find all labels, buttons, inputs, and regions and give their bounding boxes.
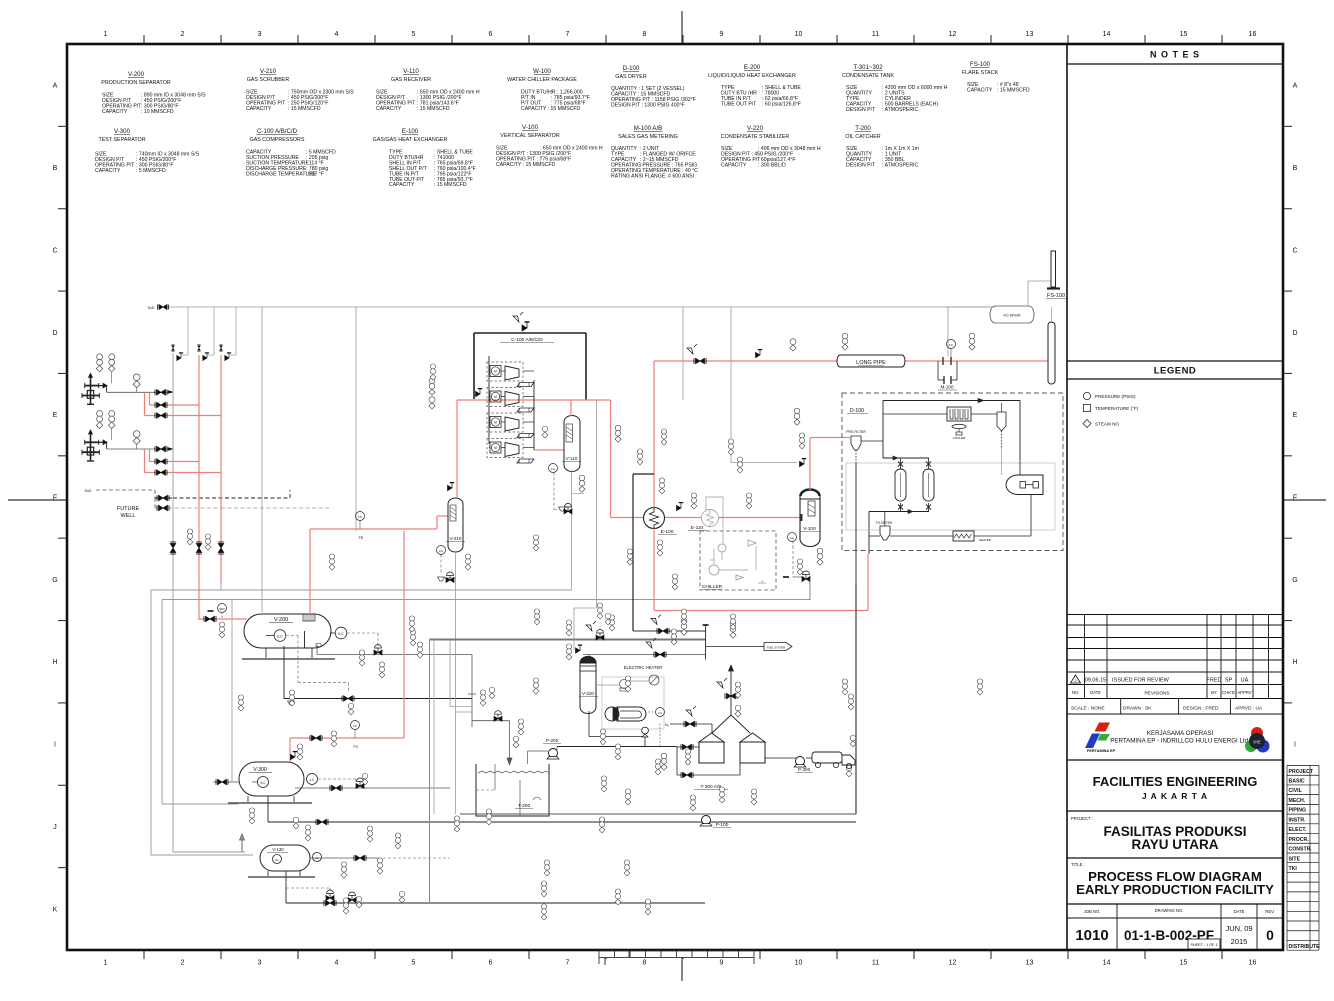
svg-text:N O T E S: N O T E S xyxy=(1150,50,1200,60)
svg-text:M: M xyxy=(494,446,497,450)
svg-text:EARLY PRODUCTION FACILITY: EARLY PRODUCTION FACILITY xyxy=(1076,882,1274,897)
svg-text:P-100: P-100 xyxy=(716,822,729,828)
svg-text:N₂: N₂ xyxy=(665,723,670,727)
svg-text:OIL CATCHER: OIL CATCHER xyxy=(845,134,880,140)
svg-text:8: 8 xyxy=(643,31,647,38)
svg-text:V-110: V-110 xyxy=(403,68,419,75)
svg-text:P-200: P-200 xyxy=(546,738,559,743)
svg-text:H: H xyxy=(1292,659,1297,666)
svg-text:: 300 BBL/D: : 300 BBL/D xyxy=(758,162,786,168)
svg-text:T-200: T-200 xyxy=(518,803,531,809)
svg-text:SP: SP xyxy=(1225,678,1233,684)
svg-text:FUEL SYSTEM: FUEL SYSTEM xyxy=(767,646,785,650)
svg-text:DISTRIBUTE: DISTRIBUTE xyxy=(1289,944,1321,950)
svg-text:PRE-FILTER: PRE-FILTER xyxy=(846,430,866,434)
svg-text:9: 9 xyxy=(720,31,724,38)
svg-text::: : xyxy=(551,106,552,112)
svg-text:A: A xyxy=(53,83,58,90)
svg-text:LIQUID/LIQUID HEAT EXCHANGER: LIQUID/LIQUID HEAT EXCHANGER xyxy=(708,73,796,79)
svg-text:DxD: DxD xyxy=(85,489,92,493)
svg-text:VERTICAL SEPARATOR: VERTICAL SEPARATOR xyxy=(500,133,560,139)
svg-text:C: C xyxy=(52,247,57,254)
svg-text:E: E xyxy=(53,412,58,419)
svg-text:HEATER: HEATER xyxy=(979,538,992,542)
svg-text:8: 8 xyxy=(643,960,647,967)
svg-text:LG: LG xyxy=(790,536,795,540)
svg-text:PROJECT: PROJECT xyxy=(1289,769,1314,775)
svg-text:H: H xyxy=(52,659,57,666)
svg-text:9: 9 xyxy=(720,960,724,967)
svg-text:M-100 A/B: M-100 A/B xyxy=(634,125,662,132)
svg-text:: 15 MMSCFD: : 15 MMSCFD xyxy=(417,106,450,112)
svg-text:LG: LG xyxy=(439,549,444,553)
svg-text:V-210: V-210 xyxy=(260,68,277,75)
svg-text:ILC: ILC xyxy=(261,781,267,785)
svg-text:PERTAMINA EP: PERTAMINA EP xyxy=(1087,749,1116,753)
svg-text:J A K A R T A: J A K A R T A xyxy=(1142,791,1208,801)
svg-text:IHE: IHE xyxy=(1253,740,1261,745)
svg-text:WELL: WELL xyxy=(121,513,136,519)
svg-text:FS-100: FS-100 xyxy=(970,61,991,68)
svg-text:A: A xyxy=(1293,83,1298,90)
svg-text:V-300: V-300 xyxy=(253,767,267,773)
svg-text:15: 15 xyxy=(1180,31,1188,38)
svg-text:DESIGN : FRED: DESIGN : FRED xyxy=(1183,706,1219,712)
svg-text:V-220: V-220 xyxy=(582,691,594,696)
svg-text:CAPACITY: CAPACITY xyxy=(102,109,128,115)
svg-text:1: 1 xyxy=(104,960,108,967)
svg-text:FS-100: FS-100 xyxy=(1047,293,1065,299)
svg-text:DESIGN P/T: DESIGN P/T xyxy=(846,162,876,168)
svg-text:PIPING: PIPING xyxy=(1289,808,1307,814)
svg-text:ELECTRIC HEATER: ELECTRIC HEATER xyxy=(624,665,663,670)
svg-text:SHEET : 1 OF 1: SHEET : 1 OF 1 xyxy=(1190,943,1217,947)
svg-text::: : xyxy=(540,162,541,168)
svg-text:: 15 MMSCFD: : 15 MMSCFD xyxy=(997,87,1030,93)
svg-text:11: 11 xyxy=(872,960,879,967)
svg-text:C-100 A/B/C/D: C-100 A/B/C/D xyxy=(257,128,298,135)
svg-text:MECH.: MECH. xyxy=(1289,798,1306,804)
svg-text:KO DRUM: KO DRUM xyxy=(1004,314,1021,318)
svg-text:CONSTR.: CONSTR. xyxy=(1289,847,1313,853)
svg-text:LC: LC xyxy=(310,778,315,782)
svg-text:7: 7 xyxy=(566,960,570,967)
svg-text::: : xyxy=(640,173,641,179)
svg-text:: 10 MMSCFD: : 10 MMSCFD xyxy=(141,109,174,115)
svg-text:: 5 MMSCFD: : 5 MMSCFD xyxy=(136,168,166,174)
svg-text:CAPACITY: CAPACITY xyxy=(246,106,272,112)
svg-text:TEST SEPARATOR: TEST SEPARATOR xyxy=(98,137,145,143)
svg-text:C: C xyxy=(1292,247,1297,254)
svg-text:3: 3 xyxy=(258,31,262,38)
svg-text:DATE: DATE xyxy=(1234,909,1245,914)
svg-text:FUTURE: FUTURE xyxy=(117,506,140,512)
svg-text:RAYU UTARA: RAYU UTARA xyxy=(1131,837,1218,852)
svg-text:FLARE STACK: FLARE STACK xyxy=(962,70,999,76)
svg-text:I: I xyxy=(1294,742,1296,749)
svg-text:CAPACITY: CAPACITY xyxy=(95,168,121,174)
svg-text:D-100: D-100 xyxy=(623,65,640,72)
svg-text:DxD: DxD xyxy=(148,306,155,310)
svg-text:INSTR.: INSTR. xyxy=(1289,817,1307,823)
svg-text:14: 14 xyxy=(1103,31,1111,38)
svg-text:TUBE OUT P/T: TUBE OUT P/T xyxy=(721,101,757,107)
svg-text:SALES GAS METERING: SALES GAS METERING xyxy=(618,134,678,140)
svg-text:ILC: ILC xyxy=(338,632,344,636)
svg-text:J: J xyxy=(53,824,57,831)
svg-text:M: M xyxy=(494,370,497,374)
svg-text:: ATMOSPERIC: : ATMOSPERIC xyxy=(882,107,918,113)
svg-text:TEMPERATURE (°F): TEMPERATURE (°F) xyxy=(1095,406,1139,411)
svg-text:GAS DRYER: GAS DRYER xyxy=(615,74,647,80)
svg-text:CAPACITY: CAPACITY xyxy=(389,182,415,188)
svg-text:REVISIONS: REVISIONS xyxy=(1144,691,1169,696)
svg-text:DATE: DATE xyxy=(1090,690,1101,695)
svg-text:13: 13 xyxy=(1026,960,1034,967)
svg-text:JOB NO.: JOB NO. xyxy=(1084,909,1101,914)
svg-text:PRODUCTION SEPARATOR: PRODUCTION SEPARATOR xyxy=(101,80,171,86)
svg-text:RATING ANSI FLANGE: # 600 ANSI: RATING ANSI FLANGE: # 600 ANSI xyxy=(611,173,694,179)
svg-text:11: 11 xyxy=(872,31,879,38)
svg-text:10: 10 xyxy=(795,31,803,38)
svg-text:WATER CHILLER PACKAGE: WATER CHILLER PACKAGE xyxy=(507,77,577,83)
svg-text:6: 6 xyxy=(489,31,493,38)
svg-text:ELECT.: ELECT. xyxy=(1289,827,1307,833)
svg-text:5: 5 xyxy=(412,960,416,967)
svg-text:TKI: TKI xyxy=(1289,866,1298,872)
svg-text:K: K xyxy=(53,906,58,913)
svg-text:TO-DRYER: TO-DRYER xyxy=(876,521,893,525)
svg-text:4: 4 xyxy=(335,960,339,967)
svg-text:T-200: T-200 xyxy=(855,125,871,132)
svg-text:D-100: D-100 xyxy=(850,408,864,414)
svg-text:UA: UA xyxy=(1241,678,1249,684)
svg-text:TITLE :: TITLE : xyxy=(1071,862,1085,867)
svg-text:SDV: SDV xyxy=(219,607,225,611)
svg-text:: 15 MMSCFD: : 15 MMSCFD xyxy=(288,106,321,112)
svg-text:E-100: E-100 xyxy=(661,529,674,535)
svg-text:15: 15 xyxy=(1180,960,1188,967)
svg-text:ILC: ILC xyxy=(277,635,283,639)
svg-text:PROJECT :: PROJECT : xyxy=(1071,816,1093,821)
svg-text:LG: LG xyxy=(658,711,663,715)
svg-text:09.06.15: 09.06.15 xyxy=(1085,678,1106,684)
svg-text:: 237 °F: : 237 °F xyxy=(306,171,324,177)
svg-text:REV.: REV. xyxy=(1265,909,1274,914)
svg-text:1010: 1010 xyxy=(1075,927,1108,944)
svg-text:: ATMOSPERIC: : ATMOSPERIC xyxy=(882,162,918,168)
svg-text:C-100 A/B/C/D: C-100 A/B/C/D xyxy=(511,337,543,343)
svg-text:CHILLER: CHILLER xyxy=(702,584,723,590)
svg-text:T-300 A/B: T-300 A/B xyxy=(700,784,721,790)
svg-text:V-200: V-200 xyxy=(128,71,145,78)
svg-text:G: G xyxy=(1292,577,1297,584)
svg-text:W-100: W-100 xyxy=(533,68,551,75)
svg-text:V-210: V-210 xyxy=(449,536,461,541)
svg-text:3: 3 xyxy=(258,960,262,967)
svg-text:V-130: V-130 xyxy=(272,847,284,852)
svg-text:CAPACITY : 15 MMSCFD: CAPACITY : 15 MMSCFD xyxy=(496,162,556,168)
svg-text:GAS COMPRESSORS: GAS COMPRESSORS xyxy=(250,137,305,143)
svg-text:LG: LG xyxy=(551,467,556,471)
svg-text:B: B xyxy=(53,165,58,172)
svg-text:FRED: FRED xyxy=(1207,678,1222,684)
svg-text:2015: 2015 xyxy=(1231,937,1248,946)
svg-text:BASIC: BASIC xyxy=(1289,779,1305,785)
svg-text:5: 5 xyxy=(412,31,416,38)
svg-text:LEGEND: LEGEND xyxy=(1154,366,1197,377)
svg-text:GAS/GAS HEAT EXCHANGER: GAS/GAS HEAT EXCHANGER xyxy=(373,137,448,143)
svg-text:V-220: V-220 xyxy=(747,125,764,132)
svg-text:PROCR.: PROCR. xyxy=(1289,837,1310,843)
svg-text:STEAM NO: STEAM NO xyxy=(1095,422,1119,427)
svg-text:2: 2 xyxy=(181,960,185,967)
svg-text:CAPACITY: CAPACITY xyxy=(721,162,747,168)
svg-text:FE: FE xyxy=(359,536,364,540)
svg-text:0: 0 xyxy=(1266,927,1274,943)
svg-text:KERJASAMA OPERASI: KERJASAMA OPERASI xyxy=(1147,730,1214,737)
svg-text:DESIGN P/T : 1300 PSIG 400: DESIGN P/T : 1300 PSIG 400°F xyxy=(611,102,685,108)
svg-text:7: 7 xyxy=(566,31,570,38)
svg-text:CAPACITY: CAPACITY xyxy=(967,87,993,93)
svg-text:JUN, 09: JUN, 09 xyxy=(1225,924,1252,933)
svg-text:E-200: E-200 xyxy=(744,64,761,71)
svg-text:FS: FS xyxy=(358,515,362,519)
svg-text:E-100: E-100 xyxy=(402,128,419,135)
svg-text:CAPACITY: CAPACITY xyxy=(376,106,402,112)
svg-text:V-100: V-100 xyxy=(803,526,816,532)
svg-text:SITE: SITE xyxy=(1289,856,1301,862)
svg-text:D: D xyxy=(1292,330,1297,337)
svg-text:PRESSURE (PSIG): PRESSURE (PSIG) xyxy=(1095,394,1136,399)
svg-text:14: 14 xyxy=(1103,960,1111,967)
svg-text:E: E xyxy=(1293,412,1298,419)
svg-text:M: M xyxy=(494,395,497,399)
svg-text:6: 6 xyxy=(489,960,493,967)
svg-text:16: 16 xyxy=(1249,960,1257,967)
svg-text:DRAWN : SK: DRAWN : SK xyxy=(1123,706,1152,712)
svg-text:PERTAMINA EP - INDRILLCO HULU: PERTAMINA EP - INDRILLCO HULU ENERGI Ltd… xyxy=(1110,738,1250,745)
svg-text:: 15 MMSCFD: : 15 MMSCFD xyxy=(434,182,467,188)
svg-text:COOLER: COOLER xyxy=(953,436,967,440)
svg-text:V-100: V-100 xyxy=(522,124,539,131)
svg-text:P-300: P-300 xyxy=(798,767,811,772)
svg-text:V-300: V-300 xyxy=(114,128,131,135)
svg-text:G: G xyxy=(52,577,57,584)
svg-text:1: 1 xyxy=(104,31,108,38)
svg-text:NO.: NO. xyxy=(1072,690,1079,695)
svg-text:APPRV: APPRV xyxy=(1237,690,1251,695)
svg-text:FACILITIES ENGINEERING: FACILITIES ENGINEERING xyxy=(1093,774,1258,789)
svg-text:2: 2 xyxy=(181,31,185,38)
svg-text:12: 12 xyxy=(949,31,957,38)
svg-text:10: 10 xyxy=(795,960,803,967)
svg-text::: : xyxy=(660,102,661,108)
svg-text:: 60 psia/126.8°F: : 60 psia/126.8°F xyxy=(762,101,801,107)
svg-text:BY: BY xyxy=(1211,690,1217,695)
svg-text:V-200: V-200 xyxy=(274,617,288,623)
svg-text:CONDENSATE STABILIZER: CONDENSATE STABILIZER xyxy=(721,134,790,140)
svg-text:D: D xyxy=(52,330,57,337)
svg-text:SCALE : NONE: SCALE : NONE xyxy=(1071,706,1105,712)
svg-text:DESIGN P/T: DESIGN P/T xyxy=(846,107,876,113)
svg-text:I: I xyxy=(54,742,56,749)
svg-text:M: M xyxy=(494,421,497,425)
svg-text:CIVIL: CIVIL xyxy=(1289,788,1303,794)
svg-text:M-100: M-100 xyxy=(940,385,953,390)
svg-text:12: 12 xyxy=(949,960,957,967)
svg-text:13: 13 xyxy=(1026,31,1034,38)
svg-text:16: 16 xyxy=(1249,31,1257,38)
svg-text:CHK'D: CHK'D xyxy=(1222,690,1235,695)
svg-text:B: B xyxy=(1293,165,1298,172)
svg-text:ILL: ILL xyxy=(275,858,279,862)
svg-text:E-110: E-110 xyxy=(691,525,704,531)
svg-text:V-110: V-110 xyxy=(566,456,578,461)
svg-text:APRVD : UA: APRVD : UA xyxy=(1235,706,1263,712)
svg-text:GAS SCRUBBER: GAS SCRUBBER xyxy=(247,77,290,83)
svg-text:ISSUED FOR REVIEW: ISSUED FOR REVIEW xyxy=(1112,678,1170,684)
svg-text:GAS RECEIVER: GAS RECEIVER xyxy=(391,77,431,83)
svg-text:4: 4 xyxy=(335,31,339,38)
svg-text:DRAWING NO.: DRAWING NO. xyxy=(1155,908,1184,913)
svg-text:FC: FC xyxy=(353,745,358,749)
svg-text:CONDENSATE TANK: CONDENSATE TANK xyxy=(842,73,894,79)
svg-text:LONG PIPE: LONG PIPE xyxy=(856,360,886,366)
svg-text:T-301~302: T-301~302 xyxy=(853,64,883,71)
